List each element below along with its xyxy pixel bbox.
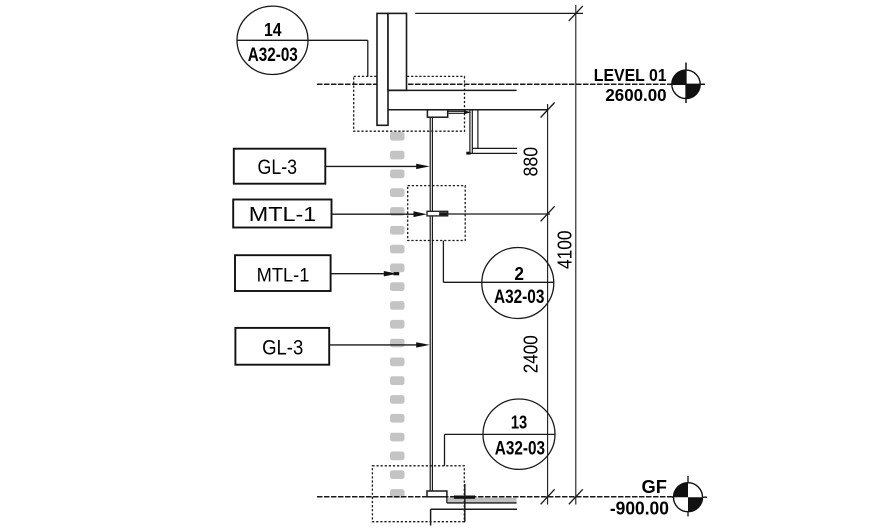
svg-text:GL-3: GL-3 [262,336,303,360]
sill step horizontal [447,502,517,504]
head fixing double line [448,110,466,112]
leader MTL-1 upper [332,213,422,215]
svg-text:GL-3: GL-3 [258,156,298,179]
tick A1 [541,103,555,118]
sill black bar [454,496,475,499]
svg-text:-900.00: -900.00 [610,498,669,519]
svg-text:2600.00: 2600.00 [605,85,666,105]
leader GL-3 upper [325,165,424,167]
svg-text:A32-03: A32-03 [494,286,545,308]
svg-text:A32-03: A32-03 [248,44,298,66]
sill step vertical [446,497,448,503]
slab line vertical [430,509,432,525]
bracket horizontal upper [472,147,517,149]
parapet narrow vertical bar [377,13,388,125]
level line GF [317,496,673,498]
callout circle 13 [483,399,555,469]
label box GL-3 upper [234,149,325,184]
dimension line B 4100 [575,5,577,505]
svg-text:4100: 4100 [554,230,577,269]
sill base plate [427,491,447,497]
mullion double line [429,117,431,491]
ceiling line upper [388,89,517,91]
tick A3 [541,489,555,504]
callout circle 14 [237,6,308,74]
leader MTL-1 lower [331,273,390,275]
tick B1 [569,6,583,21]
mid transom line to dim [448,213,550,215]
dimension line A 880/2400 [547,104,549,505]
floor edge vertical [464,484,466,522]
label box GL-3 lower [235,328,329,365]
svg-text:A32-03: A32-03 [495,438,545,460]
svg-text:2: 2 [514,263,524,284]
callout circle 2 [482,248,554,319]
datum symbol LEVEL 01 [670,63,705,104]
bracket horizontal lower [467,152,517,154]
dashed detail box top [354,76,465,131]
soffit line [388,109,548,111]
svg-text:2400: 2400 [520,335,543,373]
svg-text:13: 13 [511,411,527,432]
svg-text:GF: GF [642,476,667,497]
gray floor bar [448,498,517,503]
top extension line [415,12,583,14]
head transom profile [427,110,447,117]
svg-text:LEVEL 01: LEVEL 01 [594,65,667,85]
dashed detail box mid [408,186,466,241]
gray insulation dash strip [390,132,405,498]
slab line horizontal [431,508,517,510]
parapet wide vertical bar [388,13,407,90]
bracket end plate [466,152,470,155]
mid transom insert [439,212,447,215]
svg-text:MTL-1: MTL-1 [249,204,317,226]
tick A2 [541,206,555,221]
level line LEVEL 01 [317,83,672,85]
mid transom profile [427,211,448,216]
bracket vertical pair [469,110,471,154]
bracket vertical single [477,110,479,149]
tick B2 [569,489,583,504]
dashed detail box bottom [372,466,464,522]
head fixing arrow [464,110,471,114]
svg-text:880: 880 [520,147,543,177]
label box MTL-1 upper [233,200,331,228]
leader GL-3 lower [329,344,424,346]
datum symbol GF [672,476,707,517]
svg-text:MTL-1: MTL-1 [257,265,310,287]
label box MTL-1 lower [235,255,331,291]
svg-text:14: 14 [264,19,282,40]
